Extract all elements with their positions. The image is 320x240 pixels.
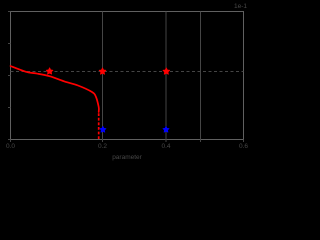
left axis tick marks <box>8 12 11 140</box>
svg-text:1e-1: 1e-1 <box>234 3 247 10</box>
plot box (axes spines) <box>11 12 244 140</box>
bottom axis tick marks <box>11 140 244 143</box>
horizontal threshold dashed line <box>11 71 244 73</box>
svg-text:0.4: 0.4 <box>161 143 170 150</box>
red star marker 2 <box>99 68 106 74</box>
vertical guide line at x=102 <box>102 12 104 140</box>
red star marker 1 <box>46 68 53 74</box>
blue star marker 1 <box>100 126 106 132</box>
vertical guide line at x=200 <box>200 12 202 140</box>
svg-text:0.0: 0.0 <box>6 143 15 150</box>
red profile curve (solid part) <box>11 66 99 112</box>
svg-text:0.2: 0.2 <box>98 143 107 150</box>
red dashed vertical segment of curve <box>98 113 100 139</box>
svg-text:0.6: 0.6 <box>239 143 248 150</box>
vertical guide line at x=166 <box>165 12 167 140</box>
svg-text:parameter: parameter <box>112 154 142 161</box>
red star marker 3 <box>163 68 170 74</box>
blue star marker 2 <box>163 126 169 132</box>
